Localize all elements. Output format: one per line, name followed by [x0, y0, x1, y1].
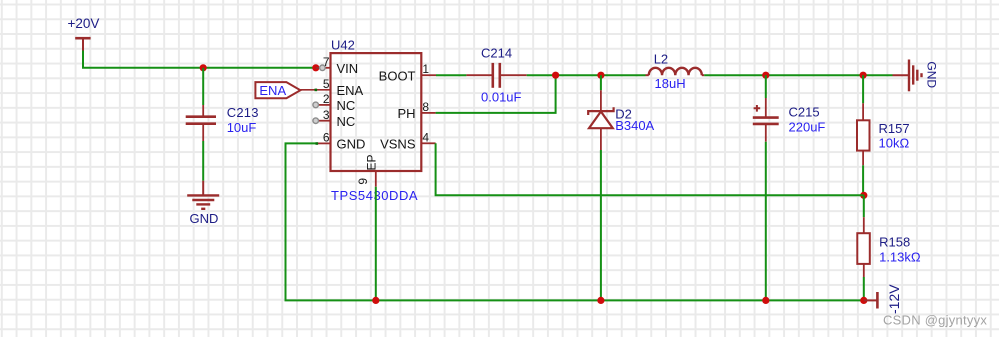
wire R157 bottom to feedback node — [862, 165, 864, 195]
junction rail / R158 — [860, 297, 867, 304]
IC U42 body — [331, 53, 422, 171]
svg-text:ENA: ENA — [259, 83, 286, 98]
wire U42 EP pad to rail — [375, 187, 377, 301]
junction output / R157 — [860, 72, 867, 79]
svg-text:9: 9 — [356, 178, 370, 185]
svg-text:U42: U42 — [331, 38, 355, 53]
junction switch node / BOOT cap — [552, 72, 559, 79]
junction output / C215 — [762, 72, 769, 79]
svg-text:B340A: B340A — [615, 118, 654, 133]
wire R158 top lead — [863, 195, 865, 217]
capacitor C213 — [186, 105, 259, 141]
junction VIN wire / C213 — [200, 64, 207, 71]
wire C215 bottom lead to GND rail — [765, 142, 767, 301]
junction rail / D2 anode — [597, 297, 604, 304]
capacitor C214 — [466, 46, 526, 105]
diode D2 (B340A schottky) — [588, 90, 654, 150]
U42 pin 9 EP — [356, 154, 379, 186]
net label ENA — [255, 82, 300, 98]
svg-text:TPS5430DDA: TPS5430DDA — [331, 188, 418, 203]
inductor L2 — [646, 52, 705, 91]
wire U42 GND pin to rail — [286, 143, 864, 300]
svg-text:NC: NC — [337, 98, 356, 113]
svg-text:6: 6 — [323, 131, 330, 145]
wire U42 PH to switch node — [436, 75, 556, 113]
svg-text:3: 3 — [323, 108, 330, 122]
U42 pin 2 NC — [313, 92, 355, 113]
wire C213 top lead — [202, 68, 204, 105]
U42 pin 3 NC — [313, 108, 355, 129]
svg-text:L2: L2 — [654, 52, 668, 67]
svg-text:R157: R157 — [879, 121, 910, 136]
svg-text:GND: GND — [190, 211, 219, 226]
svg-text:-12V: -12V — [886, 284, 902, 314]
svg-text:8: 8 — [422, 100, 429, 114]
svg-text:220uF: 220uF — [789, 120, 826, 135]
junction switch node / D2 — [597, 72, 604, 79]
svg-text:4: 4 — [422, 130, 429, 144]
svg-text:1.13kΩ: 1.13kΩ — [879, 249, 921, 264]
U42 pin 5 ENA — [300, 77, 363, 98]
svg-text:VSNS: VSNS — [380, 137, 416, 152]
wire R157 top lead — [862, 75, 864, 103]
wire C214 to PH node and D2 — [527, 74, 646, 76]
wire D2 cathode lead — [600, 75, 602, 90]
wire D2 anode to GND rail — [600, 150, 602, 300]
junction rail / EP — [372, 297, 379, 304]
svg-text:GND: GND — [337, 137, 366, 152]
svg-text:1: 1 — [422, 62, 429, 76]
ground symbol GND (top right) — [893, 60, 939, 92]
svg-text:C214: C214 — [481, 46, 512, 61]
U42 pin 8 PH — [397, 100, 435, 121]
U42 pin 6 GND — [316, 131, 366, 152]
svg-text:2: 2 — [323, 92, 330, 106]
junction feedback node — [860, 192, 867, 199]
capacitor C215 (polarized) — [753, 98, 826, 142]
svg-text:+20V: +20V — [68, 16, 100, 31]
junction at U42 pin 7 — [312, 64, 319, 71]
U42 pin 4 VSNS — [380, 130, 436, 151]
resistor R157 — [857, 103, 910, 165]
wire +20V to U42 pin 7 (VIN net) — [83, 51, 316, 68]
wire C213 bottom lead — [202, 141, 204, 181]
svg-text:C215: C215 — [789, 105, 820, 120]
svg-text:ENA: ENA — [337, 83, 364, 98]
svg-text:BOOT: BOOT — [379, 69, 416, 84]
power symbol -12V — [864, 284, 902, 314]
svg-text:R158: R158 — [879, 235, 910, 250]
wire R158 bottom to -12V rail — [863, 277, 865, 300]
svg-text:10uF: 10uF — [227, 120, 257, 135]
junction rail / C215 — [762, 297, 769, 304]
svg-text:0.01uF: 0.01uF — [481, 89, 522, 104]
svg-text:EP: EP — [365, 154, 379, 170]
power symbol +20V — [68, 16, 100, 51]
svg-text:5: 5 — [323, 77, 330, 91]
wire U42 VSNS to feedback node — [436, 143, 864, 195]
svg-text:CSDN @gjyntyyx: CSDN @gjyntyyx — [883, 313, 987, 328]
svg-text:VIN: VIN — [337, 61, 359, 76]
wire U42 BOOT to C214 — [436, 74, 466, 76]
svg-text:GND: GND — [925, 61, 939, 88]
svg-text:18uH: 18uH — [655, 76, 686, 91]
wire C215 top lead — [765, 75, 767, 98]
U42 pin 1 BOOT — [379, 62, 436, 84]
wire L2 to output GND symbol — [704, 74, 892, 76]
resistor R158 — [857, 217, 921, 277]
svg-text:PH: PH — [397, 106, 415, 121]
svg-text:7: 7 — [323, 55, 330, 69]
ground symbol GND (below C213) — [187, 181, 219, 226]
svg-text:C213: C213 — [227, 105, 259, 120]
svg-text:10kΩ: 10kΩ — [879, 136, 910, 151]
U42 pin 7 VIN — [316, 55, 358, 76]
svg-text:NC: NC — [337, 114, 356, 129]
